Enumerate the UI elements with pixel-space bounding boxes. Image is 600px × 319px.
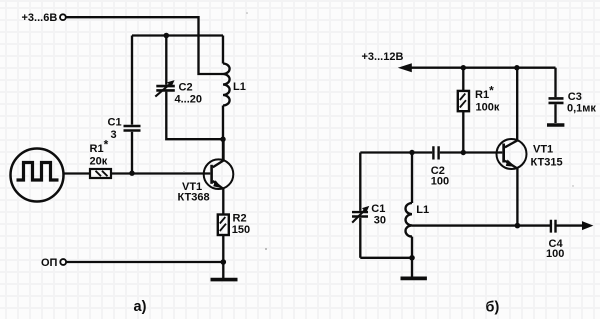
svg-text:4...20: 4...20	[175, 94, 203, 106]
svg-text:C1: C1	[371, 203, 385, 215]
svg-text:0,1мк: 0,1мк	[567, 103, 596, 115]
svg-text:30: 30	[374, 215, 386, 227]
svg-text:КТ315: КТ315	[531, 157, 563, 169]
svg-text:VT1: VT1	[533, 144, 553, 156]
svg-text:а): а)	[134, 299, 147, 315]
svg-text:ОП: ОП	[41, 257, 58, 269]
svg-text:б): б)	[486, 300, 500, 316]
svg-text:100к: 100к	[476, 102, 500, 114]
svg-text:R1*: R1*	[475, 84, 494, 102]
svg-text:+3...12В: +3...12В	[362, 51, 404, 63]
svg-text:150: 150	[232, 224, 250, 236]
svg-text:R2: R2	[233, 213, 247, 225]
svg-text:КТ368: КТ368	[178, 192, 210, 204]
svg-text:100: 100	[546, 248, 564, 260]
svg-text:L1: L1	[233, 81, 246, 93]
svg-text:L1: L1	[416, 204, 429, 216]
svg-text:R1*: R1*	[90, 138, 109, 156]
svg-text:C1: C1	[108, 117, 122, 129]
svg-text:+3...6В: +3...6В	[22, 12, 58, 24]
svg-text:C2: C2	[179, 82, 193, 94]
svg-text:3: 3	[111, 129, 117, 141]
svg-text:C3: C3	[568, 91, 582, 103]
svg-text:20к: 20к	[90, 156, 108, 168]
svg-text:100: 100	[431, 176, 449, 188]
